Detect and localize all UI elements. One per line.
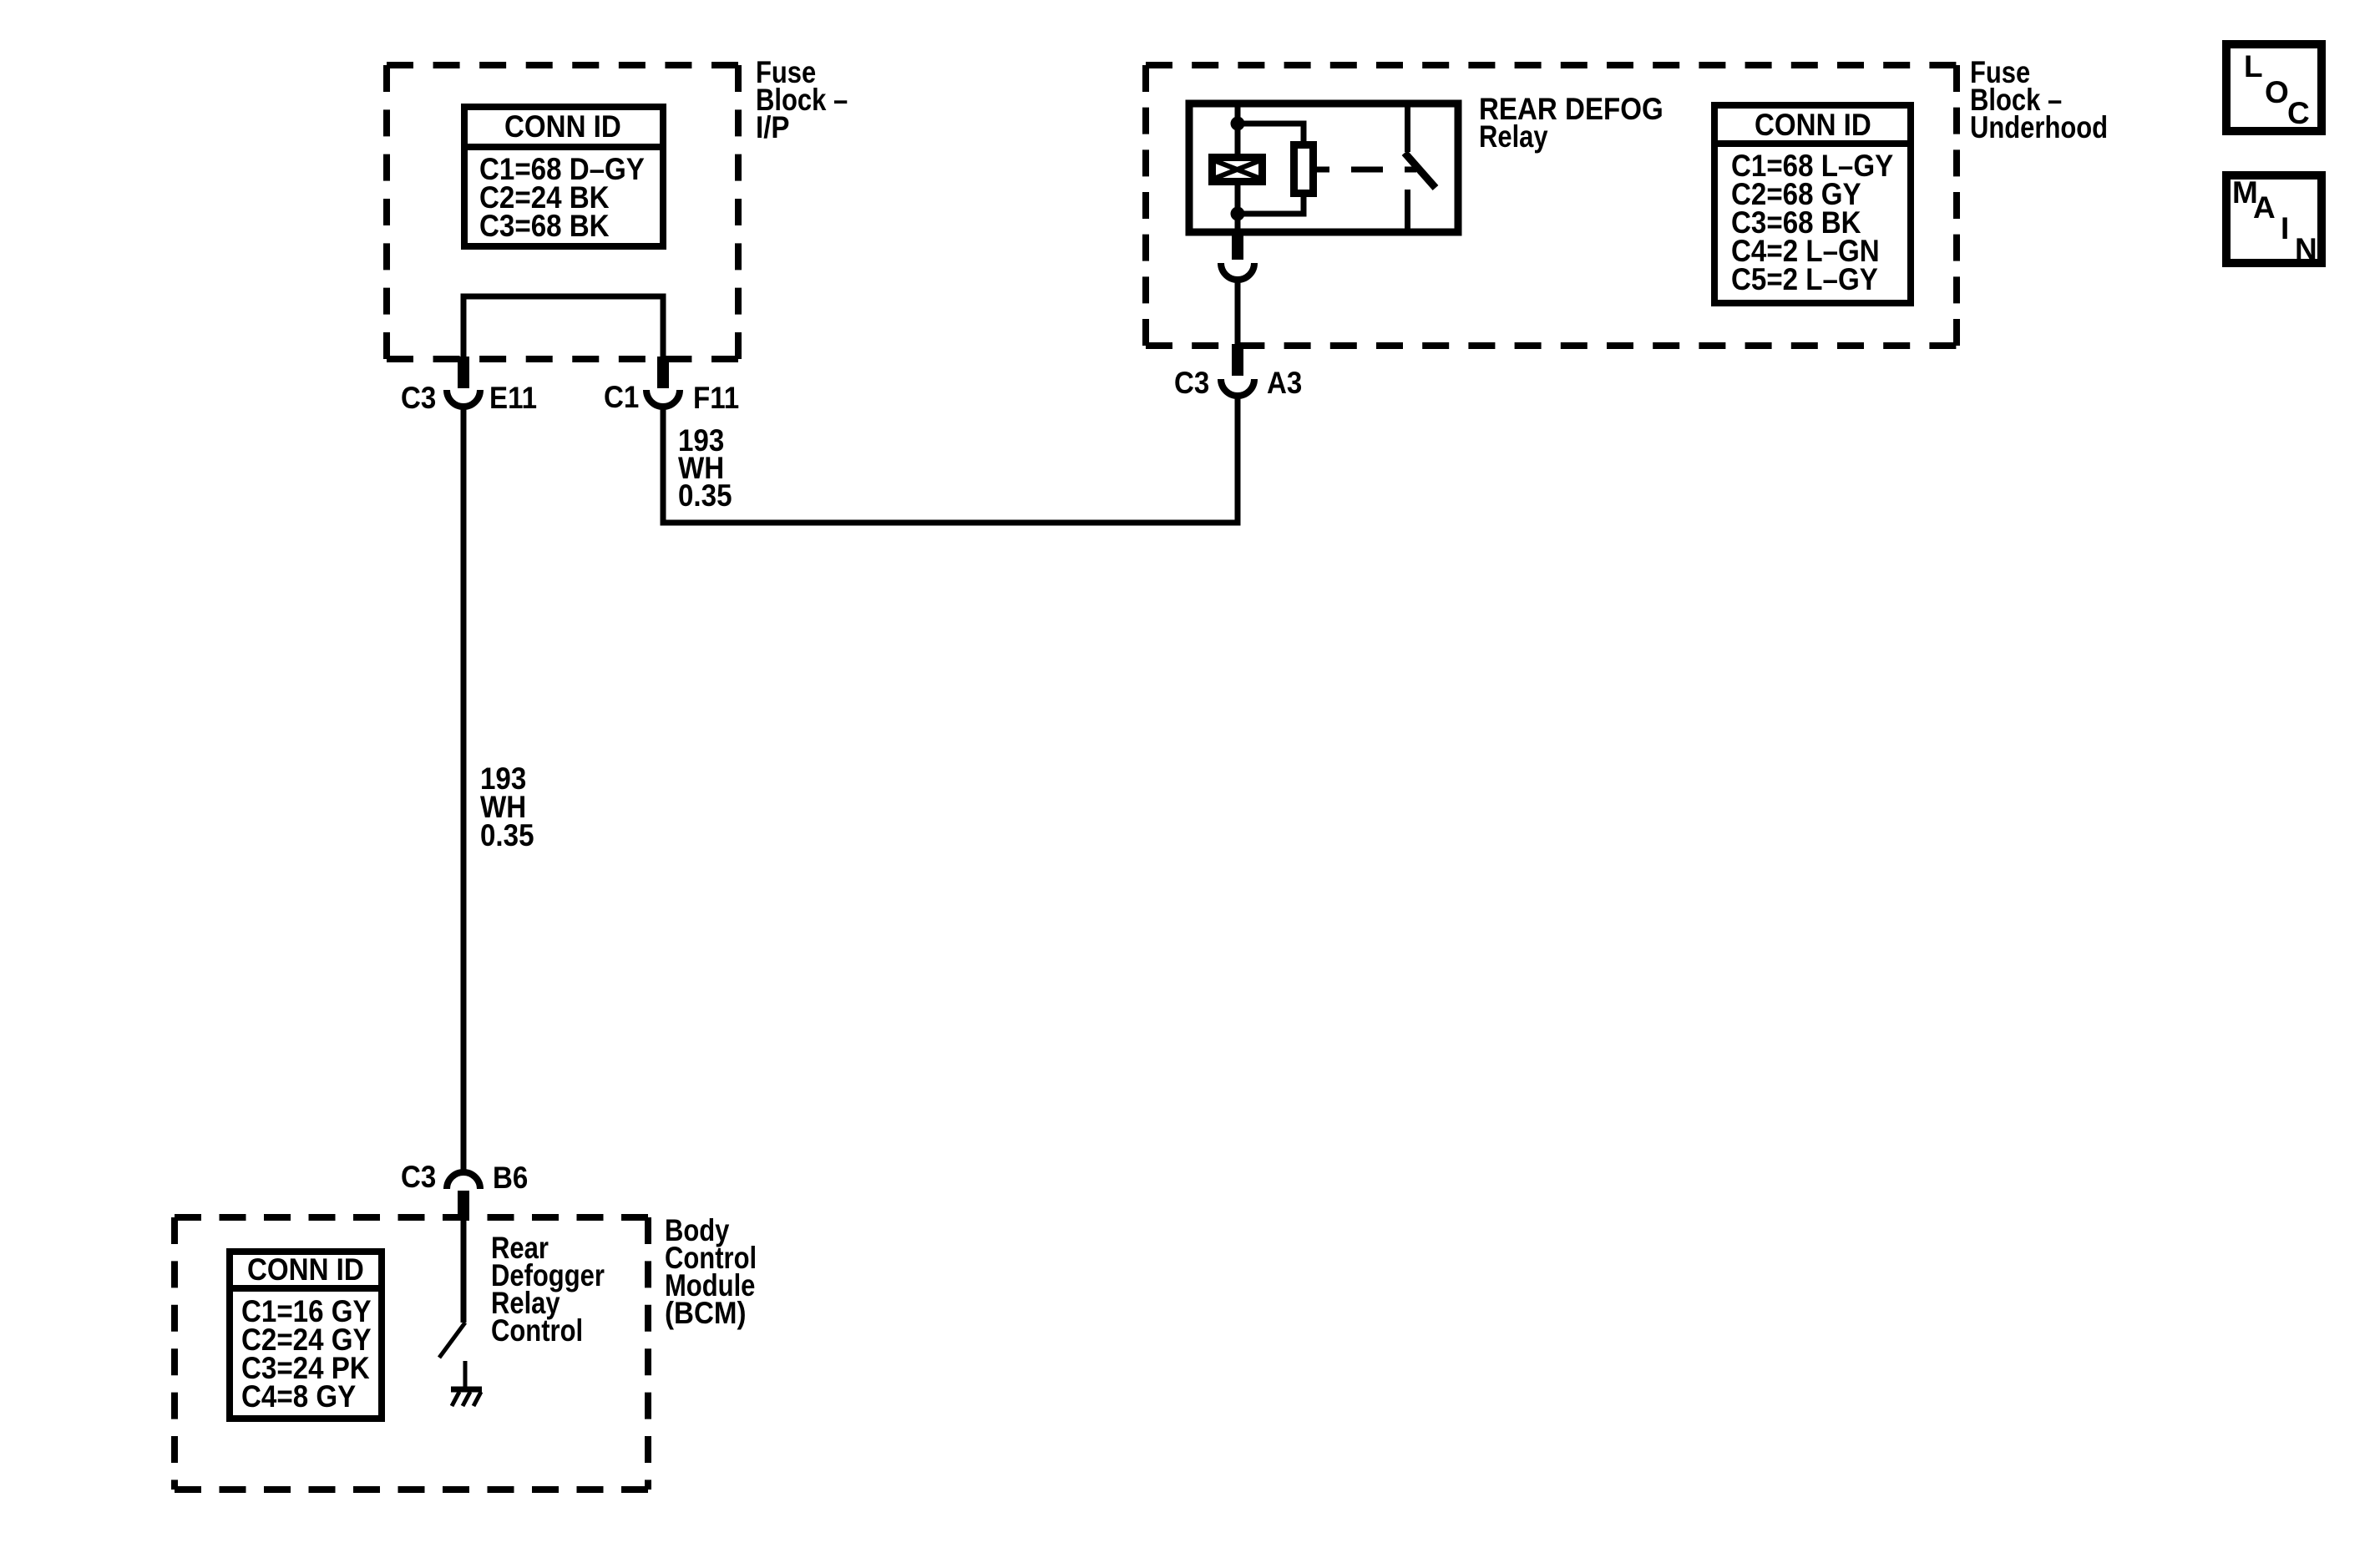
connector pin C1 F11: [657, 357, 669, 388]
svg-text:0.35: 0.35: [678, 478, 732, 513]
svg-text:(BCM): (BCM): [665, 1296, 747, 1330]
svg-text:C5=2 L–GY: C5=2 L–GY: [1731, 262, 1878, 296]
wire B6 into BCM: [461, 1218, 467, 1323]
resistor (suppression): [1294, 145, 1314, 194]
wire label 193 WH 0.35 (upper): [678, 423, 732, 513]
svg-text:CONN ID: CONN ID: [504, 109, 621, 144]
CONN ID table (Fuse Block - I/P): [461, 107, 666, 246]
resistor branch wires: [1238, 124, 1304, 214]
ground hatches: [452, 1392, 481, 1406]
wire: circuit 193 WH from E11 to BCM B6: [461, 407, 467, 1172]
resistor output tick: [1317, 167, 1329, 173]
junction dot top: [1231, 117, 1245, 131]
svg-text:Control: Control: [491, 1313, 583, 1348]
connector socket arc F11: [646, 390, 680, 407]
svg-text:E11: E11: [489, 381, 537, 415]
svg-text:C3=68 BK: C3=68 BK: [479, 209, 610, 243]
MAIN reference box: [2226, 175, 2322, 266]
Fuse Block - I/P dashed enclosure: [387, 65, 738, 359]
connector socket arc E11: [447, 390, 480, 407]
Fuse Block - I/P label: [756, 55, 848, 144]
svg-text:F11: F11: [693, 381, 739, 415]
Body Control Module dashed enclosure: [175, 1217, 648, 1490]
svg-text:0.35: 0.35: [480, 818, 534, 852]
svg-text:N: N: [2295, 232, 2317, 266]
svg-text:Underhood: Underhood: [1970, 110, 2108, 144]
svg-text:C4=8 GY: C4=8 GY: [241, 1379, 356, 1414]
relay REAR DEFOG outer box: [1189, 104, 1458, 232]
svg-text:Relay: Relay: [1479, 119, 1548, 154]
switch divider lower: [1405, 190, 1410, 229]
relay pin bar: [1232, 230, 1243, 260]
svg-text:A3: A3: [1267, 366, 1302, 400]
Fuse Block - Underhood dashed enclosure: [1146, 65, 1957, 346]
svg-text:CONN ID: CONN ID: [1755, 108, 1871, 142]
CONN ID table (Fuse Block - Underhood): [1711, 105, 1914, 303]
svg-text:I/P: I/P: [756, 110, 790, 144]
relay coil bottom wire: [1235, 181, 1241, 236]
switch divider upper: [1405, 107, 1410, 152]
svg-text:I: I: [2281, 211, 2289, 245]
dashed actuation link: [1351, 167, 1383, 173]
wire label 193 WH 0.35 (lower): [480, 761, 534, 852]
svg-text:L: L: [2244, 49, 2263, 83]
wire relay socket to A3: [1235, 280, 1241, 351]
LOC reference box: [2226, 44, 2322, 131]
relay coil (box with X): [1213, 158, 1263, 182]
relay socket arc: [1221, 263, 1254, 280]
ground bar: [451, 1387, 482, 1393]
svg-text:A: A: [2253, 190, 2276, 225]
connector pin C3 E11: [458, 357, 469, 388]
connector pin C3 A3: [1232, 344, 1243, 376]
svg-text:C: C: [2287, 96, 2310, 130]
svg-text:C3: C3: [401, 381, 436, 415]
Rear Defogger Relay Control label: [491, 1231, 605, 1348]
relay coil top wire: [1235, 107, 1241, 157]
svg-text:O: O: [2265, 75, 2289, 109]
connector socket arc A3: [1221, 379, 1254, 396]
svg-text:C3: C3: [1174, 366, 1209, 400]
wire: fuse block internal link E11 to F11: [463, 296, 663, 359]
svg-text:C3: C3: [401, 1160, 436, 1194]
REAR DEFOG Relay label: [1479, 92, 1663, 154]
ground stub: [463, 1361, 468, 1389]
switch pivot tick: [1405, 167, 1416, 173]
Fuse Block - Underhood label: [1970, 55, 2108, 144]
CONN ID table (BCM): [226, 1252, 385, 1419]
Body Control Module label: [665, 1213, 757, 1330]
switch blade: [1405, 153, 1436, 188]
BCM driver switch blade: [439, 1323, 465, 1358]
connector socket arc B6 (dome): [447, 1172, 480, 1189]
svg-text:CONN ID: CONN ID: [247, 1252, 364, 1287]
connector pin C3 B6: [458, 1191, 469, 1220]
svg-text:B6: B6: [493, 1161, 528, 1195]
wire: circuit 193 WH from F11 to relay A3: [663, 396, 1238, 523]
junction dot bottom: [1231, 207, 1245, 221]
svg-text:C1: C1: [604, 380, 639, 414]
